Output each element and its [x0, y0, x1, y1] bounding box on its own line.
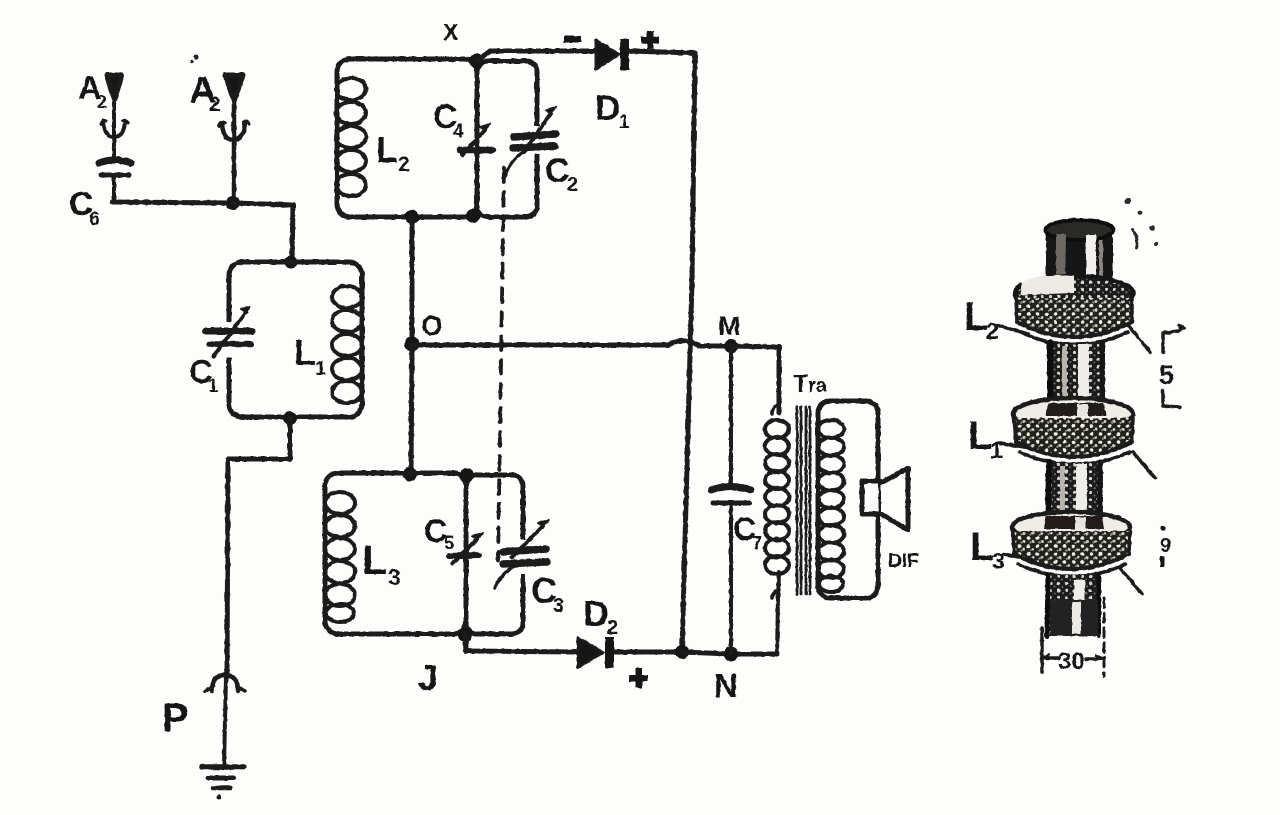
svg-text:L: L	[964, 295, 988, 339]
pictorial: bobbin L1	[1013, 398, 1133, 465]
label C6	[69, 185, 100, 230]
inductor L2 coil	[336, 78, 366, 196]
svg-text:T: T	[793, 370, 808, 398]
svg-text:1: 1	[619, 112, 630, 133]
transformer core	[797, 407, 810, 594]
leader L3 pictorial	[1004, 554, 1032, 560]
svg-text:D: D	[595, 89, 620, 128]
label Tra	[793, 370, 828, 398]
wire D1 to bottom rail	[629, 51, 695, 652]
svg-text:M: M	[718, 311, 741, 341]
svg-text:2: 2	[986, 318, 999, 344]
label plus (D1)	[641, 31, 659, 49]
svg-text:5: 5	[1159, 360, 1174, 390]
svg-text:9: 9	[1160, 535, 1171, 557]
junction dot C5 bottom	[458, 628, 472, 642]
wire L3 to D2	[465, 635, 578, 652]
dimension 30 (bottom)	[1041, 598, 1104, 676]
label L2 (pictorial)	[964, 295, 999, 344]
speaker DIF	[862, 468, 908, 530]
node O junction dot	[405, 337, 420, 352]
svg-text:L: L	[294, 332, 316, 373]
svg-text:J: J	[418, 657, 438, 698]
svg-text:L: L	[968, 414, 992, 458]
label 5	[1159, 360, 1174, 390]
label C3	[531, 570, 564, 617]
svg-text:2: 2	[209, 93, 221, 116]
label C2	[545, 152, 578, 196]
capacitor C3 branch box	[466, 475, 523, 634]
junction dot D1 rail bottom	[675, 645, 689, 659]
svg-text:2: 2	[97, 92, 107, 112]
label X	[443, 19, 459, 45]
label N	[714, 667, 738, 704]
inductor L3 box	[325, 473, 466, 634]
wire D2 to N rail	[614, 650, 682, 655]
diode D1	[596, 39, 629, 70]
wire L2 bottom to node O	[410, 217, 415, 344]
svg-text:L: L	[970, 525, 994, 569]
antenna A2 (right)	[219, 75, 249, 203]
label plus (D2)	[629, 668, 648, 688]
label C7	[733, 511, 762, 553]
svg-text:2: 2	[607, 617, 618, 639]
svg-text:L: L	[376, 129, 398, 170]
pictorial: rod between L1 and L3	[1047, 462, 1103, 520]
junction dot L1 top	[285, 256, 298, 269]
svg-text:1: 1	[990, 437, 1003, 463]
junction dot L2 bottom	[405, 210, 419, 224]
junction dot N	[724, 647, 739, 662]
leader right of L3 bobbin	[1120, 568, 1142, 594]
label A2 (left)	[78, 69, 107, 112]
leader right of L1 bobbin	[1133, 452, 1155, 478]
label DIF	[888, 551, 919, 572]
label C1	[189, 353, 219, 397]
junction dot C4 bottom	[466, 209, 480, 223]
leader L1 pictorial	[1000, 443, 1030, 448]
label L3 (pictorial)	[970, 525, 1005, 574]
svg-text:N: N	[714, 667, 738, 704]
svg-text:2: 2	[398, 153, 410, 176]
svg-text:4: 4	[453, 121, 464, 142]
pictorial: knob on top of coil former	[1046, 220, 1114, 296]
wire node O down to L3	[411, 345, 412, 474]
wire hook to ground	[224, 676, 226, 766]
capacitor C2	[513, 107, 556, 154]
pictorial: rod below L3	[1046, 575, 1101, 636]
label J	[418, 657, 438, 698]
inductor L3 coil	[325, 492, 355, 622]
label L2	[376, 129, 410, 176]
leader right of L2 bobbin	[1128, 325, 1150, 352]
junction dot A	[226, 196, 240, 210]
svg-text:DIF: DIF	[888, 551, 919, 572]
junction dot L3 top	[403, 467, 417, 481]
svg-text:L: L	[362, 536, 388, 583]
node X junction dot	[470, 54, 485, 69]
svg-text:5: 5	[444, 533, 454, 553]
svg-text:O: O	[421, 310, 443, 341]
label A2 (right)	[189, 70, 221, 116]
svg-text:2: 2	[567, 174, 578, 196]
label L3	[362, 536, 401, 590]
capacitor C6	[99, 160, 131, 202]
wire C6 to junction A	[112, 202, 233, 203]
svg-text:P: P	[162, 696, 189, 740]
svg-text:3: 3	[388, 564, 401, 590]
label D1	[595, 89, 630, 133]
scan speck near A2 right	[190, 54, 198, 63]
capacitor C5	[449, 533, 483, 564]
capacitor C1	[206, 307, 252, 358]
wire junction A to L1 tank	[233, 203, 293, 262]
label P	[162, 696, 189, 740]
svg-text:C: C	[545, 152, 570, 190]
label C5	[424, 513, 454, 553]
ground symbol	[202, 767, 244, 800]
svg-text:1: 1	[208, 376, 219, 397]
pictorial: rod between L2 and L1	[1048, 342, 1105, 408]
capacitor C2 branch box	[477, 61, 537, 217]
inductor L2 box	[337, 59, 477, 217]
label O	[421, 310, 443, 341]
annotation 9 (right of L3 bobbin)	[1160, 525, 1171, 567]
capacitor C3	[495, 520, 549, 588]
transformer secondary winding	[818, 401, 878, 598]
leader L2 pictorial	[996, 325, 1028, 334]
dimension 5 (top right)	[1163, 325, 1185, 407]
pictorial: bobbin L3	[1012, 512, 1130, 577]
label minus (D1)	[564, 36, 581, 43]
capacitor C7 with leads	[711, 346, 751, 654]
diode D2	[578, 637, 614, 668]
svg-text:X: X	[443, 19, 459, 45]
wire M to transformer primary	[731, 346, 779, 413]
junction dot C5 top	[460, 468, 474, 482]
svg-text:6: 6	[89, 209, 100, 230]
svg-text:ra: ra	[808, 375, 828, 397]
label L1 (pictorial)	[968, 414, 1003, 463]
wire N rail	[682, 652, 777, 654]
svg-text:30: 30	[1058, 648, 1085, 675]
pictorial: bobbin L2	[1015, 275, 1133, 345]
dashed gang line C2 to C3	[498, 150, 527, 560]
inductor L1 coil	[332, 286, 362, 403]
label C4	[433, 98, 464, 142]
svg-text:7: 7	[752, 533, 762, 553]
junction dot M	[724, 339, 738, 353]
svg-text:D: D	[583, 593, 609, 634]
wire node O to M (with hop over D1 rail)	[412, 341, 727, 346]
capacitor C4	[460, 124, 493, 155]
tank circuit box L1	[229, 262, 362, 417]
pictorial: scan specks top right	[1125, 198, 1158, 248]
label L1	[294, 332, 326, 380]
wire L1 to ground branch	[227, 418, 290, 676]
wire X to D1	[477, 51, 596, 61]
junction dot L1 bottom	[283, 411, 297, 425]
svg-text:3: 3	[992, 548, 1005, 574]
svg-text:3: 3	[553, 595, 564, 617]
antenna A2 (left)	[101, 75, 128, 160]
transformer Tra primary winding	[765, 404, 789, 654]
svg-text:1: 1	[315, 358, 326, 380]
label D2	[583, 593, 618, 639]
label M	[718, 311, 741, 341]
label 30	[1058, 648, 1085, 675]
connector hook P	[205, 675, 245, 691]
